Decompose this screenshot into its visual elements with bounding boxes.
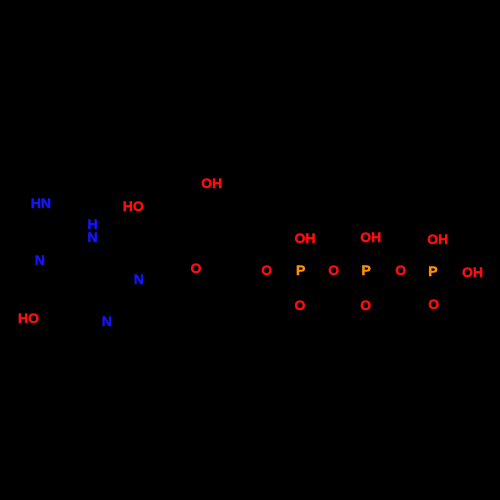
atom label O4_HO (HO)	[18, 311, 39, 325]
atom label O10 (O)	[395, 263, 406, 277]
atom label N1_HN (HN)	[31, 196, 51, 210]
atom label O3 (O)	[191, 261, 202, 275]
atom label O13_OH (OH)	[462, 265, 483, 279]
atom label N4 (N)	[134, 272, 144, 286]
atom label O9_OH (OH)	[360, 230, 381, 244]
atom label O5_OH (OH)	[295, 231, 316, 245]
atom label O11 (O)	[360, 298, 371, 312]
atom label O7 (O)	[328, 263, 339, 277]
atom label N3 (N)	[35, 253, 45, 267]
atom label O2_OH (OH)	[201, 176, 222, 190]
atom label O12_OH (OH)	[427, 232, 448, 246]
atom label P2 (P)	[362, 263, 371, 277]
atom label P1 (P)	[296, 263, 305, 277]
atom label O6 (O)	[261, 263, 272, 277]
atom label N2_H (H)	[88, 217, 98, 231]
atom label P3 (P)	[428, 264, 437, 278]
atom label N5 (N)	[102, 314, 112, 328]
atom label O8 (O)	[295, 298, 306, 312]
atom label O14 (O)	[428, 297, 439, 311]
atom label N2_N (N)	[88, 230, 98, 244]
atom label O1_HO (HO)	[123, 199, 144, 213]
